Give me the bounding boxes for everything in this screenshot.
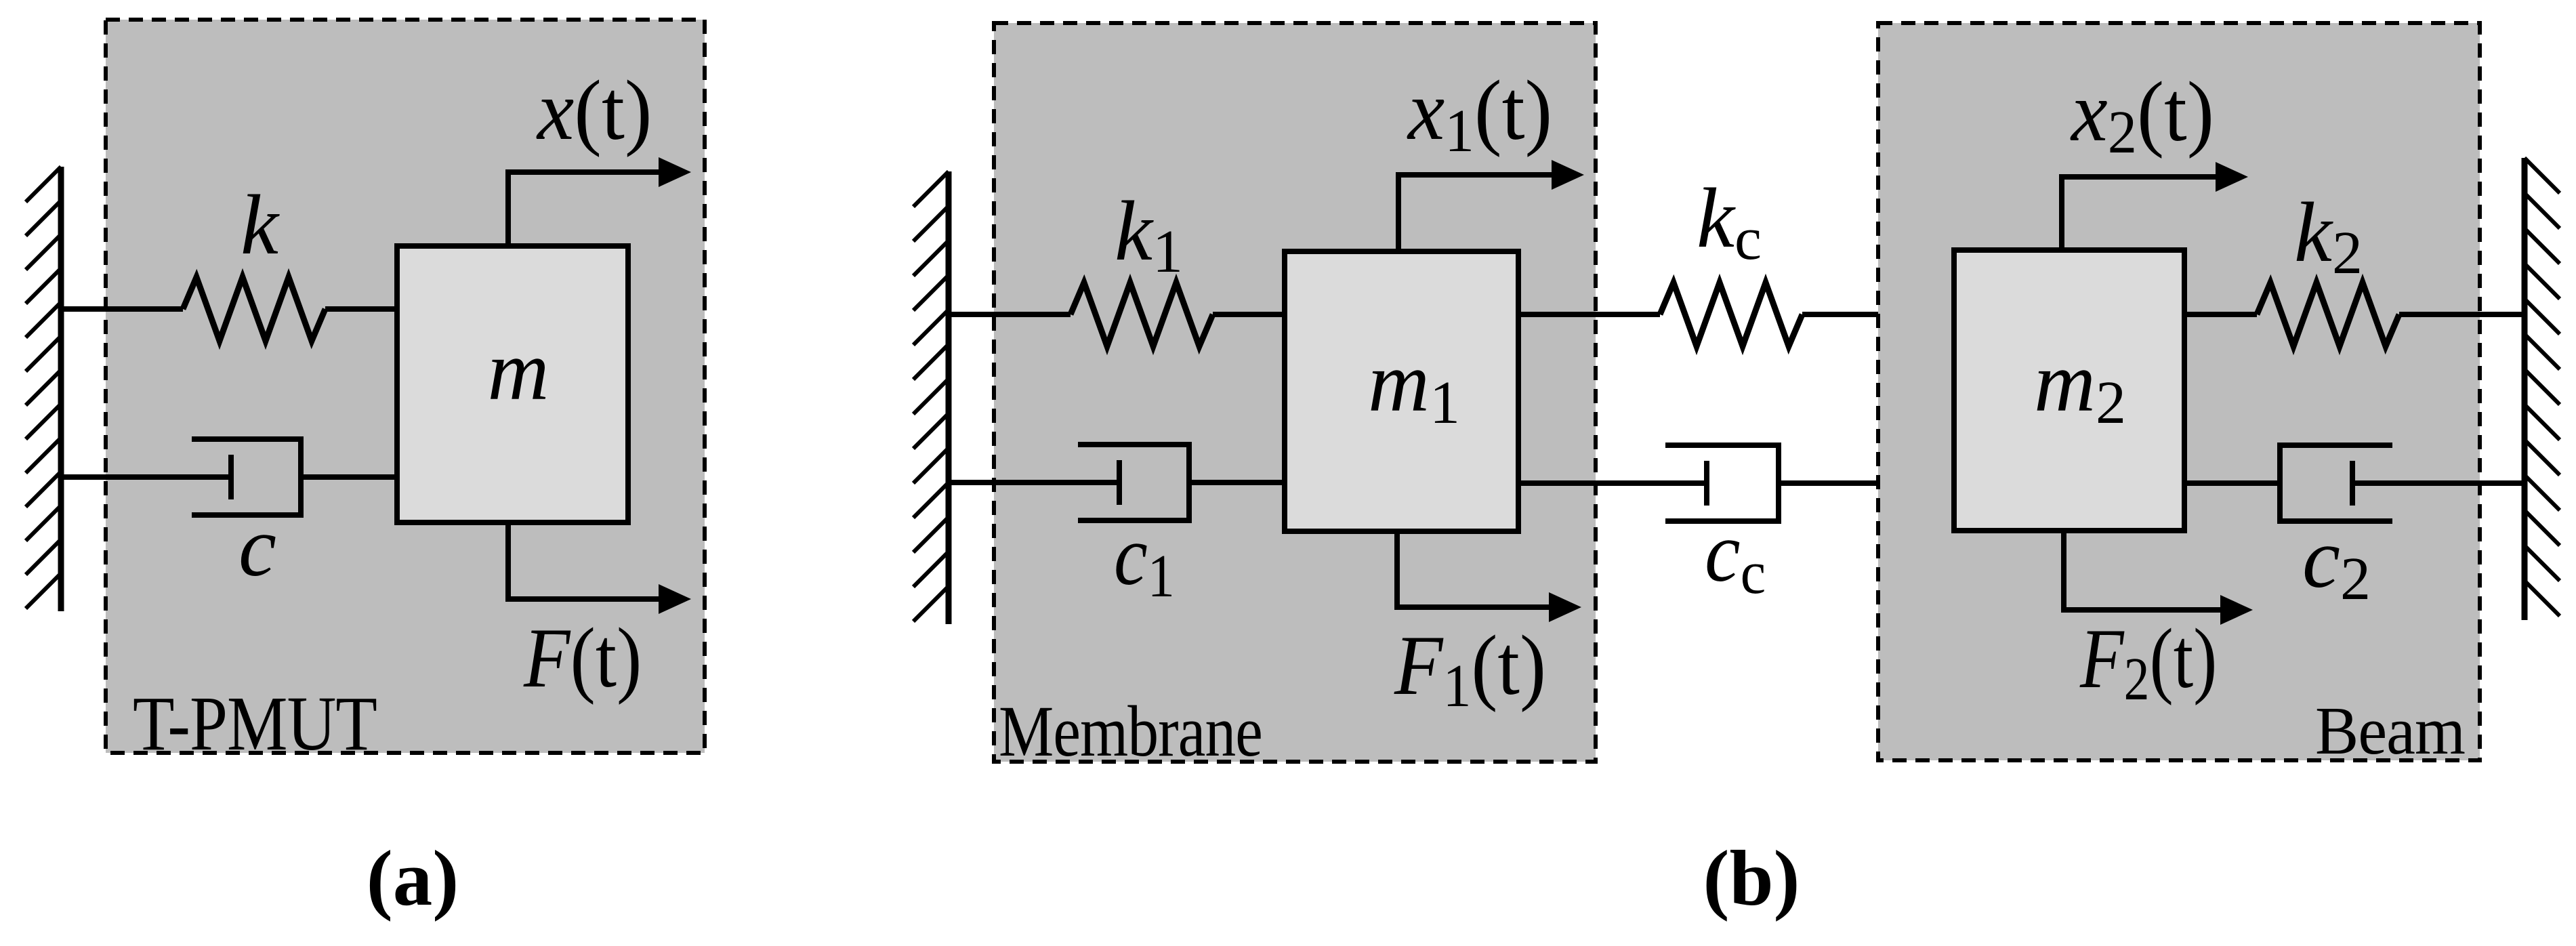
label c2 <box>2302 512 2371 613</box>
arrow F2(t) <box>2064 531 2253 625</box>
spring k1 <box>949 283 1285 346</box>
spring k (a) <box>61 277 397 341</box>
coupling damper cc <box>1518 443 1954 524</box>
svg-text:Beam: Beam <box>2315 693 2465 768</box>
wall (a) <box>26 167 61 611</box>
damper c1 <box>949 442 1285 523</box>
label F2(t) <box>2079 611 2217 712</box>
label Beam <box>2315 693 2465 768</box>
label k <box>241 178 280 272</box>
svg-text:m: m <box>488 324 549 418</box>
arrow x1(t) <box>1398 160 1584 251</box>
caption (a) <box>367 835 459 922</box>
mass m2 <box>1954 250 2184 531</box>
label k1 <box>1115 184 1183 285</box>
label c <box>238 500 276 594</box>
svg-text:F(t): F(t) <box>523 611 642 705</box>
svg-text:T-PMUT: T-PMUT <box>133 680 377 766</box>
label c1 <box>1114 508 1175 610</box>
dashed box T-PMUT (a) <box>106 20 705 753</box>
dashed box Beam (b) <box>1878 23 2480 760</box>
svg-text:(b): (b) <box>1703 835 1800 922</box>
label kc <box>1697 171 1762 272</box>
arrow x2(t) <box>2062 162 2248 250</box>
dashed box Membrane (b) <box>994 23 1596 762</box>
coupling spring kc <box>1518 283 1954 346</box>
svg-text:c: c <box>238 500 276 594</box>
svg-text:(a): (a) <box>367 835 459 922</box>
mass m1 <box>1285 251 1518 531</box>
label x2(t) <box>2070 64 2214 167</box>
label T-PMUT <box>133 680 377 766</box>
svg-text:x(t): x(t) <box>536 62 652 157</box>
wall (b right) <box>2525 158 2560 620</box>
damper c2 (mirrored) <box>2184 443 2525 524</box>
label cc <box>1705 506 1766 606</box>
svg-text:k: k <box>241 178 280 272</box>
label x1(t) <box>1407 62 1552 165</box>
svg-text:Membrane: Membrane <box>999 692 1262 772</box>
arrow x(t) (a) <box>508 157 691 246</box>
wall (b left) <box>913 171 949 624</box>
label x(t) <box>536 62 652 157</box>
svg-text:x1(t): x1(t) <box>1407 62 1552 165</box>
label F(t) <box>523 611 642 705</box>
caption (b) <box>1703 835 1800 922</box>
damper c (a) <box>61 436 397 518</box>
label F1(t) <box>1394 619 1546 719</box>
mass m (a) <box>397 246 628 522</box>
arrow F(t) (a) <box>508 522 691 614</box>
arrow F1(t) <box>1397 531 1581 622</box>
spring k2 <box>2184 283 2525 346</box>
svg-text:x2(t): x2(t) <box>2070 64 2214 167</box>
label Membrane <box>999 692 1262 772</box>
label k2 <box>2294 186 2363 287</box>
